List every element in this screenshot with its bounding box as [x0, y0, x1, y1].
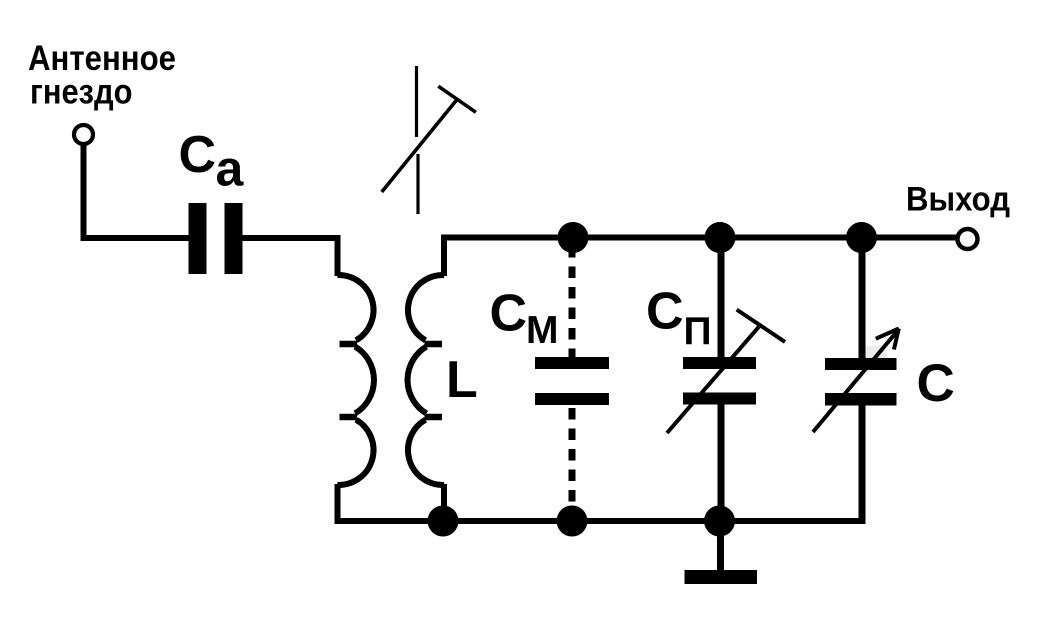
- inductor adjustable-core symbol: vertical upper segment: [415, 66, 418, 137]
- antenna input terminal: [74, 125, 93, 144]
- inductor adjustable-core symbol: vertical lower segment: [416, 154, 419, 214]
- wire: top bus: [441, 235, 956, 241]
- junction node: top bus / Cп: [705, 222, 736, 253]
- wire: ground lead: [717, 521, 724, 570]
- capacitor Cп label: [646, 283, 712, 354]
- wire: Cм bottom dashed lead: [569, 408, 576, 515]
- capacitor C top plate: [825, 358, 897, 370]
- junction node: bottom bus / ground: [704, 506, 735, 537]
- ground: [685, 570, 758, 584]
- wire: Cп bottom lead: [718, 404, 725, 521]
- wire: C top lead: [859, 238, 866, 360]
- svg-text:C: C: [179, 126, 217, 184]
- capacitor Cм bottom plate: [535, 393, 609, 405]
- wire: bottom bus: [335, 518, 862, 524]
- wire: Ca to coil top-left corner: [243, 238, 338, 276]
- capacitor C arrowhead barb left: [876, 329, 899, 339]
- capacitor Cм label: [490, 285, 559, 353]
- wire: right winding bottom stub: [441, 484, 447, 521]
- junction node: bottom bus / Cм: [557, 506, 588, 537]
- capacitor C variable arrow stem: [813, 329, 899, 432]
- capacitor Cп top plate: [683, 357, 756, 369]
- wire: left winding bottom stub: [338, 484, 346, 521]
- wire: Cм top dashed lead: [569, 246, 576, 357]
- wire: Cп top lead: [718, 238, 725, 359]
- svg-text:a: a: [216, 141, 245, 197]
- svg-text:М: М: [526, 309, 559, 352]
- output terminal: [958, 229, 978, 249]
- capacitor C arrowhead barb right: [894, 329, 899, 350]
- svg-text:L: L: [446, 351, 478, 409]
- wire: antenna to Ca: [81, 235, 190, 241]
- junction node: bottom bus / coil: [428, 506, 459, 537]
- inductor adjustable-core symbol: flat-head bar: [438, 86, 476, 112]
- inductor L right winding: [408, 275, 445, 485]
- svg-text:Выход: Выход: [906, 181, 1010, 219]
- wire: antenna terminal down: [81, 146, 87, 241]
- capacitor Ca label: [179, 126, 245, 197]
- node label "Антенное гнездо": [28, 39, 176, 112]
- svg-text:гнездо: гнездо: [30, 73, 133, 112]
- capacitor Cп trimmer flat-head bar: [737, 310, 785, 342]
- svg-text:C: C: [917, 354, 955, 413]
- capacitor Cп trimmer stem: [667, 325, 760, 433]
- junction node: top bus / Cм: [558, 222, 589, 253]
- capacitor Ca plates: [189, 203, 243, 274]
- inductor L left winding: [337, 275, 374, 485]
- svg-text:C: C: [490, 285, 528, 343]
- svg-text:П: П: [684, 310, 712, 353]
- inductor adjustable-core symbol: diagonal stem: [382, 100, 457, 193]
- capacitor Cп bottom plate: [683, 393, 756, 405]
- wire: right winding top stub: [441, 235, 447, 277]
- capacitor C bottom plate: [825, 393, 897, 406]
- wire: C bottom lead: [859, 405, 866, 524]
- capacitor Cм top plate: [535, 357, 609, 369]
- smudge artifact near C: [865, 345, 888, 358]
- svg-text:C: C: [646, 283, 684, 341]
- junction node: top bus / C: [846, 222, 877, 253]
